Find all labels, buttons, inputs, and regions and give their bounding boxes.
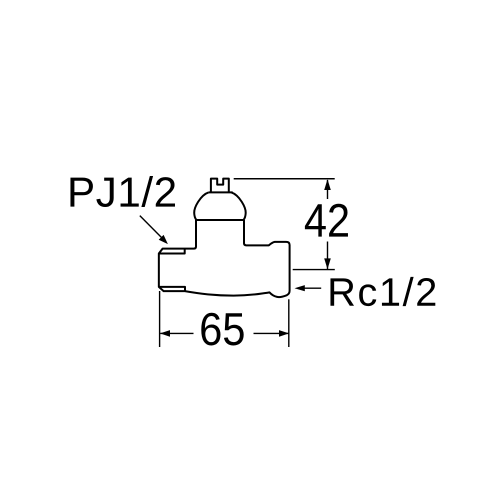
65 left arrowhead — [160, 330, 170, 337]
bonnet bell — [194, 192, 246, 220]
extension line from stem top (42 top) — [234, 178, 335, 180]
42 top arrowhead — [324, 179, 331, 190]
labels — [70, 176, 435, 345]
65 right arrowhead — [279, 330, 289, 337]
collar line under stem — [209, 191, 233, 193]
valve stem square with U notch — [211, 179, 229, 193]
dimension text 42 — [305, 204, 348, 237]
label Rc1/2 — [330, 277, 435, 306]
main body outline — [159, 220, 290, 297]
PJ1/2 arrowhead — [159, 235, 168, 244]
Rc1/2 leader line — [304, 287, 322, 289]
Rc1/2 arrowhead — [295, 285, 305, 291]
65 dimension line left segment — [160, 332, 193, 334]
extension line from body centerline (42 bottom) — [293, 269, 335, 271]
dimension graphics — [140, 179, 335, 347]
PJ1/2 leader line — [140, 216, 162, 238]
42 bottom arrowhead — [324, 258, 331, 269]
42 dimension line lower segment — [327, 242, 329, 270]
65 dimension line right segment — [254, 332, 289, 334]
label PJ1/2 — [70, 176, 175, 207]
PJ thread crest line top — [159, 249, 185, 254]
dimension text 65 — [201, 313, 243, 346]
65 right extension line — [288, 299, 290, 347]
PJ thread crest line bottom — [159, 287, 185, 291]
65 left extension line — [159, 291, 161, 347]
42 dimension line upper segment — [327, 180, 329, 199]
